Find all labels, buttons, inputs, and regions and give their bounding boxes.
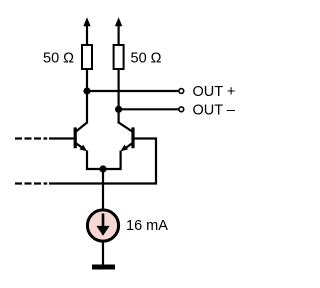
wire left rail resistor to collector (86, 69, 88, 124)
wire emitter Q2 to tail node (103, 151, 121, 170)
label OUT+ (193, 84, 236, 100)
label OUT- (193, 102, 236, 118)
wire base Q2 feedback loop (49, 139, 156, 184)
node junction OUT+ on left rail (83, 87, 90, 94)
wire dashed input lower (15, 182, 47, 184)
svg-text:50 Ω: 50 Ω (43, 51, 74, 67)
value label 50 ohm right (131, 51, 162, 67)
wire current source to ground (102, 241, 104, 266)
wire OUT- (119, 108, 179, 110)
terminal OUT+ (179, 89, 184, 94)
current source I1 16 mA (87, 210, 118, 241)
svg-text:OUT –: OUT – (193, 102, 236, 118)
resistor 50 ohm left (82, 45, 92, 69)
wire base lead Q1 (dashed input) (15, 137, 74, 139)
supply arrow left (83, 17, 90, 45)
supply arrow right (115, 17, 122, 45)
transistor Q2 (119, 123, 133, 152)
svg-text:16 mA: 16 mA (126, 218, 168, 234)
ground (92, 265, 115, 270)
resistor 50 ohm right (114, 45, 124, 69)
wire emitter Q1 to tail node (87, 151, 103, 170)
node emitter junction (99, 165, 106, 172)
wire OUT+ (87, 90, 179, 92)
value label 16 mA (126, 218, 168, 234)
svg-text:OUT +: OUT + (193, 84, 236, 100)
node junction OUT- on right rail (115, 106, 122, 113)
transistor Q1 (75, 123, 87, 152)
wire right rail resistor to collector (117, 69, 119, 124)
value label 50 ohm left (43, 51, 74, 67)
svg-text:50 Ω: 50 Ω (131, 51, 162, 67)
wire tail to current source (102, 169, 104, 209)
terminal OUT- (179, 107, 184, 112)
